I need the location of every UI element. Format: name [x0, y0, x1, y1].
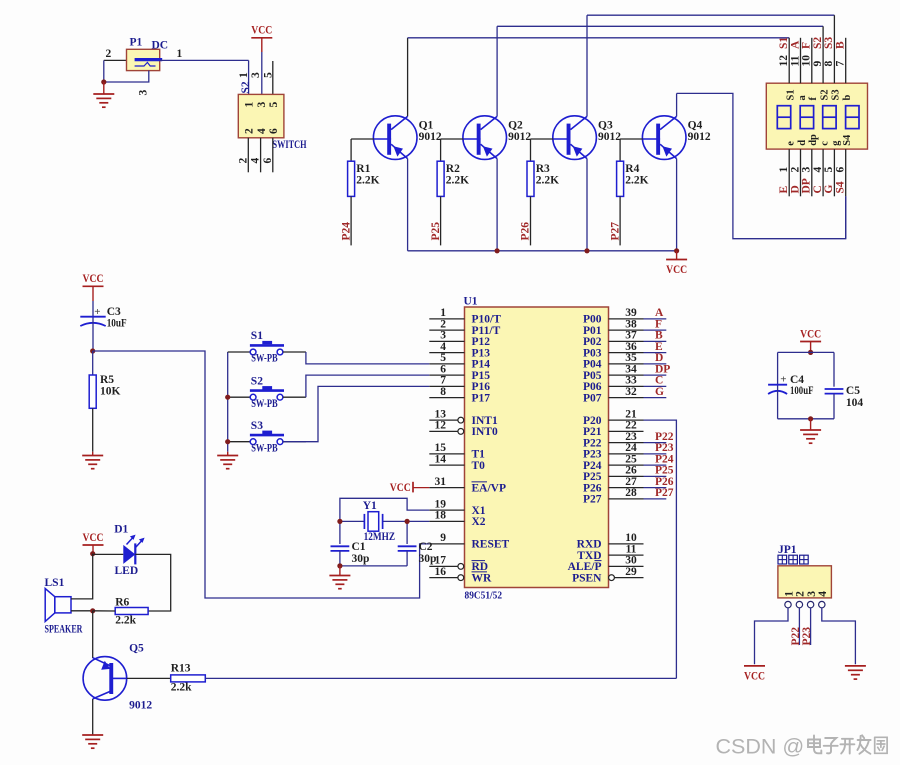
svg-text:29: 29 — [625, 566, 637, 578]
wire — [340, 520, 365, 522]
svg-text:2.2K: 2.2K — [536, 175, 559, 187]
power VCC — [390, 482, 430, 494]
U1 pin 21 P20 — [583, 408, 644, 427]
wire — [104, 59, 127, 61]
svg-text:27: 27 — [625, 476, 637, 488]
wire S1 to P14 — [306, 352, 429, 364]
wire — [92, 301, 94, 317]
junction — [337, 563, 342, 568]
svg-text:P14: P14 — [472, 359, 491, 371]
display top pin 12 — [788, 38, 790, 83]
pin 4 stub — [260, 138, 262, 173]
svg-text:R2: R2 — [446, 163, 460, 175]
wire — [93, 610, 116, 612]
svg-text:31: 31 — [435, 476, 447, 488]
junction — [90, 348, 95, 353]
svg-text:P25: P25 — [655, 465, 674, 477]
speaker LS1 — [45, 589, 71, 622]
wire — [644, 385, 667, 387]
power VCC — [83, 532, 104, 545]
junction — [90, 551, 95, 556]
power VCC — [83, 273, 104, 286]
switch S3 — [228, 431, 306, 445]
wire — [530, 196, 532, 245]
svg-text:10K: 10K — [100, 385, 121, 397]
wire — [833, 394, 835, 419]
svg-text:C3: C3 — [107, 306, 121, 318]
svg-text:33: 33 — [625, 375, 637, 387]
wire JP1-4 to GND — [822, 608, 856, 664]
svg-text:Q2: Q2 — [508, 120, 523, 132]
svg-text:DP: DP — [801, 178, 813, 193]
svg-text:S2: S2 — [251, 375, 263, 387]
svg-text:18: 18 — [435, 510, 447, 522]
svg-text:b: b — [842, 95, 853, 101]
wire — [644, 352, 667, 354]
svg-text:39: 39 — [625, 307, 637, 319]
svg-text:P04: P04 — [583, 359, 602, 371]
junction — [90, 608, 95, 613]
svg-text:25: 25 — [625, 453, 637, 465]
svg-text:WR: WR — [472, 572, 493, 584]
wire emitter — [676, 159, 678, 251]
wire — [92, 611, 94, 658]
capacitor C4 — [768, 384, 787, 386]
svg-text:6: 6 — [835, 167, 847, 173]
power VCC — [800, 328, 821, 341]
svg-text:P10/T: P10/T — [472, 314, 502, 326]
svg-text:P27: P27 — [609, 222, 621, 241]
display bottom pin 4 — [822, 149, 824, 196]
wire collector Q4 — [676, 93, 678, 116]
svg-text:9012: 9012 — [129, 700, 152, 712]
svg-text:P03: P03 — [583, 347, 602, 359]
svg-text:VCC: VCC — [251, 25, 272, 37]
svg-text:PSEN: PSEN — [572, 572, 602, 584]
U1 pin 17 RD — [429, 555, 488, 574]
junction — [405, 519, 410, 524]
svg-text:S1: S1 — [251, 330, 263, 342]
svg-text:E: E — [778, 186, 790, 194]
display digit 2 — [800, 106, 813, 129]
svg-text:8: 8 — [823, 61, 835, 67]
wire — [644, 397, 667, 399]
wire emitter — [496, 159, 498, 251]
junction — [225, 439, 230, 444]
label chao-sheng-bo — [778, 555, 808, 564]
svg-text:+: + — [94, 306, 100, 318]
svg-text:DP: DP — [655, 363, 670, 375]
svg-text:A: A — [789, 40, 801, 49]
svg-text:21: 21 — [625, 408, 637, 420]
svg-text:F: F — [655, 318, 662, 330]
svg-text:C1: C1 — [352, 541, 366, 553]
wire — [644, 374, 667, 376]
ground — [339, 566, 341, 576]
svg-text:8: 8 — [440, 386, 446, 398]
U1 pin 13 INT1 — [429, 408, 498, 427]
svg-text:22: 22 — [625, 420, 637, 432]
display digit 4 — [846, 106, 859, 129]
JP1 pin bubble 2 — [796, 601, 802, 607]
svg-text:26: 26 — [625, 465, 637, 477]
U1 pin 8 P17 — [429, 386, 490, 405]
svg-text:28: 28 — [625, 487, 637, 499]
svg-text:T1: T1 — [472, 449, 486, 461]
svg-text:1: 1 — [238, 72, 250, 78]
wire R13 to P20 — [205, 677, 676, 679]
svg-text:15: 15 — [435, 442, 447, 454]
svg-text:P24: P24 — [583, 460, 602, 472]
pin 5 stub — [272, 61, 274, 94]
U1 pin 37 P02 — [583, 330, 644, 349]
svg-text:2.2k: 2.2k — [171, 681, 192, 693]
wire — [644, 363, 667, 365]
wire — [778, 418, 834, 420]
svg-text:S1: S1 — [786, 89, 797, 100]
svg-text:1: 1 — [783, 591, 795, 597]
svg-text:100uF: 100uF — [790, 385, 814, 397]
U1 pin 28 P27 — [583, 487, 644, 506]
svg-text:7: 7 — [440, 375, 446, 387]
connector JP1 body — [778, 566, 832, 598]
svg-text:11: 11 — [789, 55, 801, 66]
junction — [808, 416, 813, 421]
wire emitter — [586, 159, 588, 251]
svg-text:3: 3 — [806, 591, 818, 597]
svg-text:VCC: VCC — [800, 328, 821, 340]
svg-text:2: 2 — [237, 158, 249, 164]
svg-text:24: 24 — [625, 442, 637, 454]
connector P1 body — [127, 49, 160, 70]
capacitor C3 — [80, 316, 105, 318]
wire — [440, 139, 442, 161]
transistor Q3 — [553, 116, 597, 160]
wire base — [351, 138, 374, 140]
svg-text:P17: P17 — [472, 392, 491, 404]
svg-text:C: C — [812, 185, 824, 193]
svg-text:5: 5 — [823, 167, 835, 173]
wire — [71, 610, 93, 612]
wire S2 to P15 — [306, 375, 429, 397]
svg-text:P05: P05 — [583, 370, 602, 382]
svg-text:LED: LED — [115, 565, 139, 577]
U1 pin 16 WR — [429, 566, 492, 585]
JP1 pin bubble 4 — [819, 601, 825, 607]
svg-text:D: D — [655, 352, 663, 364]
svg-text:VCC: VCC — [666, 264, 687, 276]
U1 pin 23 P22 — [583, 431, 644, 450]
U1 pin 18 X2 — [429, 510, 486, 529]
svg-text:S2: S2 — [812, 37, 824, 49]
resistor R6 — [115, 608, 148, 615]
junction — [808, 350, 813, 355]
ground — [845, 666, 866, 679]
wire — [644, 329, 667, 331]
svg-text:3: 3 — [440, 330, 446, 342]
svg-text:9012: 9012 — [508, 131, 531, 143]
wire emitter — [407, 159, 409, 251]
svg-text:dp: dp — [808, 134, 819, 146]
junction — [584, 248, 589, 253]
svg-text:30: 30 — [625, 555, 637, 567]
display bottom pin 1 — [788, 149, 790, 196]
display DS1 body — [766, 83, 867, 149]
svg-text:R6: R6 — [115, 596, 129, 608]
svg-text:B: B — [835, 41, 847, 49]
svg-text:R1: R1 — [356, 163, 370, 175]
svg-text:3: 3 — [250, 72, 262, 78]
svg-text:19: 19 — [435, 498, 447, 510]
svg-text:P22: P22 — [790, 627, 802, 646]
svg-text:SW-PB: SW-PB — [251, 353, 278, 365]
transistor Q5 — [83, 657, 127, 701]
wire base — [531, 138, 554, 140]
U1 pin 2 P11/T — [429, 318, 500, 337]
svg-text:2.2K: 2.2K — [446, 175, 469, 187]
wire — [248, 60, 250, 94]
wire — [644, 318, 667, 320]
svg-text:1: 1 — [778, 167, 790, 173]
svg-text:U1: U1 — [464, 296, 478, 308]
U1 pin 32 P07 — [583, 386, 644, 405]
svg-text:11: 11 — [626, 543, 637, 555]
U1 pin 34 P05 — [583, 363, 644, 382]
wire X2 — [383, 520, 430, 522]
svg-text:3: 3 — [256, 102, 268, 108]
pin 6 stub — [272, 138, 274, 173]
svg-text:37: 37 — [625, 330, 637, 342]
svg-text:d: d — [797, 140, 808, 146]
svg-text:P1: P1 — [130, 37, 143, 49]
svg-text:P24: P24 — [655, 453, 674, 465]
resistor R13 — [171, 675, 206, 682]
svg-text:P20: P20 — [583, 415, 602, 427]
svg-text:X2: X2 — [472, 516, 486, 528]
wire — [92, 318, 94, 352]
svg-text:F: F — [801, 42, 813, 49]
svg-text:S2: S2 — [240, 81, 252, 93]
U1 pin 24 P23 — [583, 442, 644, 461]
U1 pin 6 P15 — [429, 363, 490, 382]
U1 pin 15 T1 — [429, 442, 485, 461]
transistor Q1 — [373, 116, 417, 160]
svg-text:A: A — [655, 307, 664, 319]
power VCC — [251, 25, 272, 38]
svg-text:3: 3 — [138, 90, 150, 96]
svg-text:3: 3 — [801, 167, 813, 173]
svg-text:X1: X1 — [472, 505, 486, 517]
svg-text:P07: P07 — [583, 392, 602, 404]
U1 pin 36 P03 — [583, 341, 644, 360]
svg-text:2: 2 — [795, 591, 807, 597]
wire base Q5 — [127, 677, 171, 679]
wire JP1-3 — [810, 608, 812, 645]
U1 pin 27 P26 — [583, 476, 644, 495]
svg-text:7: 7 — [835, 61, 847, 67]
svg-text:10: 10 — [801, 55, 813, 67]
crystal Y1 — [364, 512, 382, 532]
wire — [777, 352, 779, 384]
svg-text:P23: P23 — [583, 449, 602, 461]
wire — [406, 521, 408, 544]
wire — [644, 340, 667, 342]
svg-text:S3: S3 — [831, 89, 842, 100]
svg-text:6: 6 — [268, 128, 280, 134]
svg-text:S1: S1 — [778, 37, 790, 49]
svg-text:9012: 9012 — [598, 131, 621, 143]
svg-text:P22: P22 — [655, 431, 674, 443]
wire — [135, 554, 170, 611]
svg-text:2: 2 — [244, 128, 256, 134]
svg-text:D1: D1 — [114, 524, 128, 536]
svg-text:Q5: Q5 — [129, 643, 144, 655]
svg-text:Q4: Q4 — [688, 120, 703, 132]
svg-text:P23: P23 — [655, 442, 674, 454]
svg-text:P00: P00 — [583, 314, 602, 326]
svg-text:5: 5 — [440, 352, 446, 364]
svg-text:+: + — [780, 374, 786, 386]
connector P1 switch contact — [135, 62, 156, 66]
resistor R5 — [89, 375, 96, 408]
JP1 pin bubble 1 — [785, 601, 791, 607]
U1 pin 33 P06 — [583, 375, 644, 394]
svg-text:P27: P27 — [655, 487, 674, 499]
svg-text:R4: R4 — [625, 163, 639, 175]
U1 pin 4 P13 — [429, 341, 490, 360]
svg-text:P26: P26 — [520, 222, 532, 241]
wire — [350, 196, 352, 245]
junction — [337, 519, 342, 524]
svg-text:R5: R5 — [100, 374, 114, 386]
svg-text:LS1: LS1 — [45, 577, 65, 589]
ground — [103, 82, 105, 94]
svg-text:VCC: VCC — [83, 532, 104, 544]
svg-text:S3: S3 — [251, 420, 263, 432]
wire collector Q3 — [586, 15, 588, 116]
wire S3 net — [587, 14, 834, 16]
U1 pin 26 P25 — [583, 465, 644, 484]
svg-text:1: 1 — [440, 307, 446, 319]
U1 pin 39 P00 — [583, 307, 644, 326]
wire — [778, 351, 834, 353]
svg-text:P02: P02 — [583, 336, 602, 348]
wire S4 — [845, 196, 847, 238]
ground — [810, 419, 812, 430]
svg-text:30p: 30p — [352, 553, 370, 565]
wire — [406, 551, 408, 566]
junction — [495, 248, 500, 253]
svg-text:2: 2 — [789, 167, 801, 173]
svg-text:C: C — [655, 375, 663, 387]
display digit 3 — [823, 106, 836, 129]
wire emitter rail — [408, 250, 677, 252]
svg-text:4: 4 — [256, 128, 268, 134]
wire — [339, 521, 341, 544]
svg-text:CSDN @: CSDN @ — [716, 735, 805, 759]
wire — [92, 351, 94, 375]
LED D1 — [123, 535, 144, 565]
wire JP1-1 to VCC — [755, 608, 789, 664]
svg-text:4: 4 — [440, 341, 446, 353]
resistor R1 — [348, 161, 355, 196]
svg-text:2.2K: 2.2K — [356, 175, 379, 187]
wire — [340, 565, 407, 567]
capacitor C5 — [825, 388, 844, 390]
wire — [619, 139, 621, 161]
svg-text:10: 10 — [625, 532, 637, 544]
svg-text:P26: P26 — [655, 476, 674, 488]
svg-text:INT1: INT1 — [472, 415, 498, 427]
wire — [350, 139, 352, 161]
svg-text:P16: P16 — [472, 381, 491, 393]
JP1 pin bubble 3 — [807, 601, 813, 607]
wire — [619, 196, 621, 245]
U1 pin 22 P21 — [583, 420, 644, 439]
svg-text:4: 4 — [250, 158, 262, 164]
svg-text:1: 1 — [244, 102, 256, 108]
connector P1 center pin bar — [135, 58, 163, 61]
svg-text:JP1: JP1 — [778, 544, 797, 556]
svg-text:RESET: RESET — [472, 539, 510, 551]
U1 body — [465, 307, 609, 588]
svg-text:104: 104 — [846, 397, 864, 409]
svg-text:ALE/P: ALE/P — [568, 561, 602, 573]
display top pin 9 — [822, 26, 824, 83]
wire collector Q1 — [407, 38, 409, 117]
wire — [644, 498, 667, 500]
svg-text:P22: P22 — [583, 437, 602, 449]
wire — [71, 554, 93, 599]
svg-text:4: 4 — [812, 167, 824, 173]
svg-text:10uF: 10uF — [107, 317, 127, 329]
svg-text:DC: DC — [152, 40, 169, 52]
svg-text:9012: 9012 — [688, 131, 711, 143]
svg-text:32: 32 — [625, 386, 637, 398]
svg-text:2.2k: 2.2k — [115, 614, 136, 626]
svg-text:P06: P06 — [583, 381, 602, 393]
svg-text:SPEAKER: SPEAKER — [45, 624, 83, 636]
svg-text:P25: P25 — [430, 222, 442, 241]
svg-text:G: G — [655, 386, 664, 398]
wire — [644, 487, 667, 489]
wire S1 net — [408, 37, 790, 39]
svg-text:89C51/52: 89C51/52 — [465, 590, 503, 602]
U1 pin 25 P24 — [583, 453, 644, 472]
svg-text:P01: P01 — [583, 325, 602, 337]
U1 pin 7 P16 — [429, 375, 490, 394]
U1 pin 29 PSEN — [572, 566, 643, 585]
U1 pin 38 P01 — [583, 318, 644, 337]
svg-text:Q3: Q3 — [598, 120, 613, 132]
svg-text:R3: R3 — [536, 163, 550, 175]
wire — [92, 699, 94, 735]
wire — [339, 551, 341, 566]
svg-text:13: 13 — [435, 408, 447, 420]
svg-text:2.2K: 2.2K — [625, 175, 648, 187]
svg-text:a: a — [797, 95, 808, 101]
U1 pin 19 X1 — [429, 498, 486, 517]
junction — [101, 79, 106, 84]
svg-text:P25: P25 — [583, 471, 602, 483]
wire base — [620, 138, 643, 140]
resistor R4 — [617, 161, 624, 196]
transistor Q4 — [642, 116, 686, 160]
wire S2 net — [497, 25, 823, 27]
svg-text:36: 36 — [625, 341, 637, 353]
wire S3 to P16 — [283, 386, 429, 441]
svg-text:R13: R13 — [171, 662, 191, 674]
